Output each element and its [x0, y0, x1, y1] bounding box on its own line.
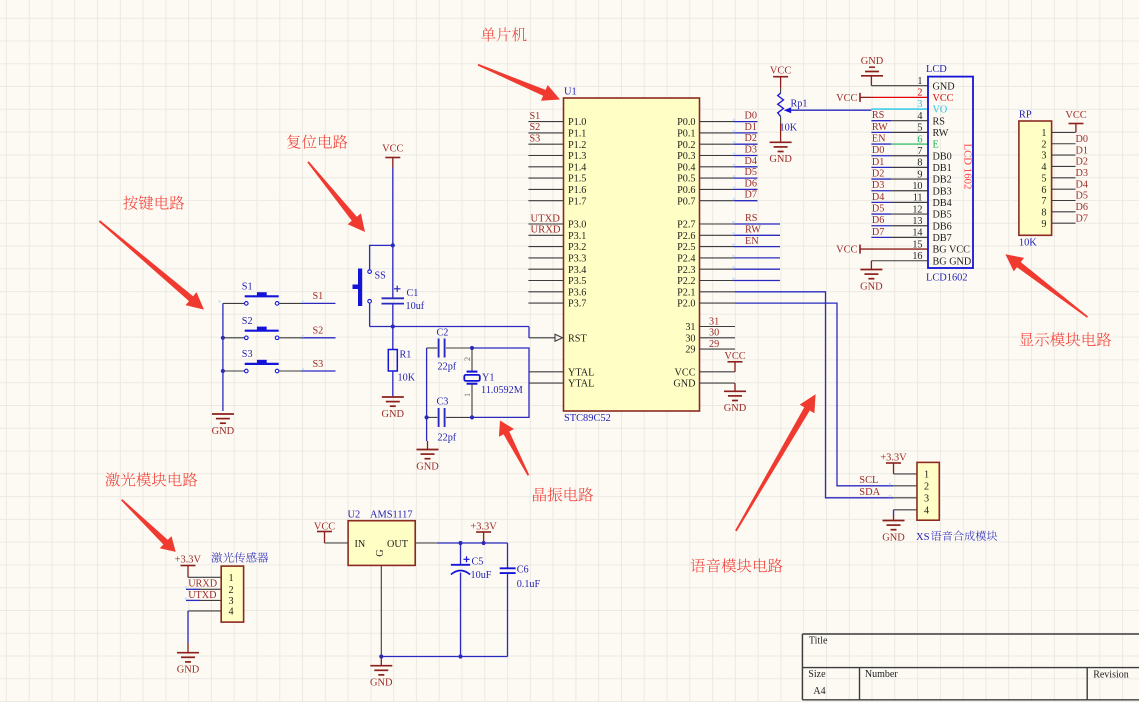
svg-text:P3.4: P3.4: [568, 265, 586, 276]
node crystal top junction: [470, 346, 474, 350]
svg-text:DB0: DB0: [933, 151, 952, 162]
wire LCD pin15 BG VCC: [860, 248, 928, 250]
svg-text:9: 9: [917, 169, 922, 180]
U1 left pins P1.0-P1.7: [528, 121, 563, 123]
svg-text:DB7: DB7: [933, 233, 952, 244]
svg-text:D3: D3: [872, 180, 884, 191]
wire laser pin1: [188, 576, 221, 578]
svg-text:4: 4: [924, 505, 929, 516]
LCD pins 4-14 wires with net labels: [871, 120, 891, 122]
svg-text:D0: D0: [872, 145, 884, 156]
svg-text:DB6: DB6: [933, 221, 952, 232]
node ground rail junction 1: [379, 654, 383, 658]
svg-text:30: 30: [709, 328, 719, 339]
svg-text:AMS1117: AMS1117: [370, 509, 413, 520]
svg-text:D7: D7: [872, 227, 884, 238]
svg-text:VCC: VCC: [836, 245, 857, 256]
svg-text:D6: D6: [1076, 202, 1088, 213]
laser pin numbers: [228, 573, 233, 618]
wire S2 output: [279, 337, 301, 339]
svg-text:1: 1: [917, 76, 922, 87]
svg-text:VCC: VCC: [1065, 110, 1086, 121]
wire VCC down: [392, 168, 394, 246]
svg-text:3: 3: [924, 493, 929, 504]
svg-text:P2.6: P2.6: [677, 231, 695, 242]
switch S1: [223, 302, 245, 304]
label 激光模块电路 (laser module circuit): [105, 472, 197, 486]
svg-text:+3.3V: +3.3V: [880, 453, 907, 464]
svg-text:GND: GND: [673, 379, 695, 390]
svg-text:D4: D4: [1076, 179, 1088, 190]
wire P2.1 to SDA: [700, 291, 736, 293]
U1 VCC pin wire: [700, 371, 736, 373]
wire XS pin1: [894, 473, 918, 475]
svg-text:D4: D4: [745, 156, 757, 167]
svg-text:P0.5: P0.5: [677, 174, 695, 185]
ground LCD bottom: [870, 261, 872, 270]
svg-text:3: 3: [228, 596, 233, 607]
svg-text:P1.7: P1.7: [568, 196, 586, 207]
svg-text:2: 2: [463, 357, 472, 361]
svg-text:D2: D2: [1076, 157, 1088, 168]
svg-text:22pf: 22pf: [438, 433, 457, 444]
ground buttons: [212, 413, 234, 415]
svg-text:Size: Size: [808, 669, 826, 680]
ground at U1: [734, 383, 736, 391]
wire laser pin3: [186, 599, 200, 601]
svg-text:2: 2: [917, 88, 922, 99]
svg-text:SDA: SDA: [859, 487, 880, 498]
svg-text:Revision: Revision: [1093, 670, 1129, 681]
node crystal bottom junction: [470, 415, 474, 419]
svg-text:BG GND: BG GND: [933, 256, 972, 267]
svg-text:8: 8: [1041, 207, 1046, 218]
svg-text:4: 4: [917, 111, 922, 122]
svg-text:LCD 1602: LCD 1602: [962, 144, 974, 190]
svg-text:GND: GND: [370, 678, 393, 689]
svg-text:P2.4: P2.4: [677, 254, 695, 265]
node S2 junction: [221, 336, 225, 340]
svg-text:5: 5: [917, 123, 922, 134]
svg-text:UTXD: UTXD: [188, 590, 216, 601]
resistor pack RP body: [1019, 121, 1052, 235]
node C5 junction top: [458, 541, 462, 545]
svg-text:D3: D3: [745, 145, 757, 156]
svg-text:P1.2: P1.2: [568, 140, 586, 151]
svg-text:D5: D5: [872, 203, 884, 214]
svg-text:S2: S2: [530, 122, 541, 133]
switch SS: [358, 269, 362, 307]
svg-text:15: 15: [912, 239, 922, 250]
svg-text:2: 2: [924, 481, 929, 492]
IC U1 STC89C52 body: [564, 98, 700, 411]
ground below R1: [382, 396, 404, 398]
svg-text:G: G: [375, 549, 386, 557]
svg-text:D0: D0: [745, 111, 757, 122]
node reset bottom junction: [391, 324, 395, 328]
title block frame: [802, 633, 1139, 635]
svg-text:10K: 10K: [780, 123, 798, 134]
svg-text:4: 4: [228, 607, 233, 618]
wire reset node: [370, 326, 529, 328]
svg-text:4: 4: [1041, 162, 1046, 173]
node +3.3V junction: [482, 541, 486, 545]
svg-text:EN: EN: [872, 133, 886, 144]
svg-text:8: 8: [917, 158, 922, 169]
svg-text:VCC: VCC: [836, 93, 857, 104]
wire XS pin4 to ground: [894, 509, 918, 511]
ground Rp1: [780, 124, 782, 143]
arrow to laser module: [121, 499, 176, 552]
svg-text:P2.1: P2.1: [677, 287, 695, 298]
svg-text:DB3: DB3: [933, 186, 952, 197]
wire S1 output: [279, 302, 301, 304]
svg-text:D4: D4: [872, 192, 884, 203]
svg-text:22pf: 22pf: [438, 362, 457, 373]
svg-text:GND: GND: [416, 461, 439, 472]
resistor R1: [392, 327, 394, 350]
ground crystal: [427, 441, 429, 450]
svg-text:STC89C52: STC89C52: [564, 413, 611, 424]
svg-text:D2: D2: [872, 168, 884, 179]
svg-text:S1: S1: [242, 282, 253, 293]
svg-text:D6: D6: [872, 215, 884, 226]
svg-text:SS: SS: [375, 271, 387, 282]
svg-text:IN: IN: [355, 539, 366, 550]
svg-text:GND: GND: [212, 426, 235, 437]
wire LCD pin2 VCC: [860, 96, 871, 98]
svg-text:VCC: VCC: [724, 351, 745, 362]
svg-text:P2.7: P2.7: [677, 220, 695, 231]
LCD pin names: [933, 81, 972, 267]
svg-text:D6: D6: [745, 178, 757, 189]
svg-text:Number: Number: [865, 669, 898, 680]
svg-text:RS: RS: [933, 116, 946, 127]
regulator U2 AMS1117 body: [348, 521, 415, 566]
node C2 C3 left junction: [425, 415, 429, 419]
svg-text:U2: U2: [348, 509, 361, 520]
svg-text:P3.5: P3.5: [568, 276, 586, 287]
LCD box: [928, 77, 973, 268]
svg-text:S1: S1: [530, 111, 541, 122]
svg-text:10: 10: [912, 181, 922, 192]
RP pin numbers: [1041, 128, 1046, 230]
U1 left pin names P1.x: [568, 117, 594, 390]
svg-text:+3.3V: +3.3V: [470, 521, 497, 532]
svg-text:D1: D1: [1076, 145, 1088, 156]
node ground rail junction 2: [458, 654, 462, 658]
svg-text:31: 31: [709, 316, 719, 327]
capacitor C1: [392, 245, 394, 298]
svg-text:EN: EN: [745, 236, 759, 247]
svg-text:RS: RS: [745, 213, 758, 224]
svg-text:URXD: URXD: [531, 225, 561, 236]
U1 GND pin wire: [700, 382, 736, 384]
svg-text:D2: D2: [745, 133, 757, 144]
svg-text:Y1: Y1: [482, 373, 494, 384]
arrow to reset circuit: [307, 161, 365, 232]
svg-text:10K: 10K: [398, 373, 416, 384]
svg-text:D1: D1: [872, 157, 884, 168]
capacitor C3: [427, 416, 438, 418]
node S3 junction: [221, 369, 225, 373]
label 显示模块电路 (display module circuit): [1019, 332, 1111, 346]
svg-text:VCC: VCC: [770, 66, 791, 77]
svg-text:12: 12: [912, 204, 922, 215]
svg-text:P0.3: P0.3: [677, 151, 695, 162]
svg-text:D5: D5: [1076, 191, 1088, 202]
label 复位电路 (reset circuit): [287, 135, 348, 149]
wire SS bottom: [369, 303, 371, 326]
svg-text:GND: GND: [724, 403, 747, 414]
svg-text:S3: S3: [530, 133, 541, 144]
svg-text:RW: RW: [745, 225, 761, 236]
U1 pins P2.7 P2.6 P2.5 with RS RW EN labels: [700, 223, 734, 225]
svg-text:10K: 10K: [1019, 238, 1037, 249]
svg-text:S2: S2: [313, 326, 324, 337]
svg-text:GND: GND: [933, 81, 955, 92]
U1 right pin names P0.x P2.x: [673, 117, 695, 390]
svg-text:E: E: [933, 140, 939, 151]
svg-text:D7: D7: [745, 190, 757, 201]
svg-text:RW: RW: [933, 128, 949, 139]
svg-text:P2.0: P2.0: [677, 299, 695, 310]
svg-text:VO: VO: [933, 105, 948, 116]
svg-text:1: 1: [1041, 128, 1046, 139]
svg-text:URXD: URXD: [188, 579, 217, 590]
svg-text:P0.7: P0.7: [677, 196, 695, 207]
svg-text:XS: XS: [916, 532, 930, 543]
svg-text:7: 7: [1041, 196, 1046, 207]
svg-text:P3.7: P3.7: [568, 299, 586, 310]
arrow to buttons: [99, 220, 204, 309]
svg-text:7: 7: [917, 146, 922, 157]
wire S3 output: [279, 370, 301, 372]
svg-text:+3.3V: +3.3V: [175, 554, 202, 565]
svg-text:3: 3: [1041, 151, 1046, 162]
svg-text:LCD1602: LCD1602: [926, 273, 968, 284]
svg-text:S2: S2: [242, 316, 253, 327]
wire XS pin2 SCL: [893, 485, 917, 487]
wire to switch SS: [370, 245, 393, 269]
svg-text:1: 1: [463, 393, 472, 397]
svg-text:P1.0: P1.0: [568, 117, 586, 128]
svg-text:GND: GND: [882, 532, 905, 543]
wire G pin down: [380, 565, 382, 656]
wire U2 ground rail: [381, 656, 507, 658]
svg-text:2: 2: [228, 585, 233, 596]
svg-text:Title: Title: [809, 636, 828, 647]
svg-text:RW: RW: [872, 122, 888, 133]
wire LCD pin16 BG GND: [871, 260, 928, 262]
svg-text:DB4: DB4: [933, 198, 952, 209]
svg-text:RS: RS: [872, 110, 885, 121]
capacitor C5: [460, 543, 462, 565]
svg-text:P0.1: P0.1: [677, 129, 695, 140]
wire to RST pin: [528, 327, 530, 339]
wire laser pin4 to ground: [188, 610, 221, 612]
switch S2: [223, 337, 245, 339]
RST open arrow: [555, 334, 563, 341]
label 按键电路 (button circuit): [123, 195, 184, 209]
svg-text:R1: R1: [400, 350, 412, 361]
resistor Rp1 zigzag: [780, 88, 782, 93]
svg-text:GND: GND: [177, 665, 200, 676]
svg-text:P2.5: P2.5: [677, 242, 695, 253]
svg-text:3: 3: [917, 99, 922, 110]
wire P2.0 to SCL: [700, 302, 736, 304]
svg-text:29: 29: [709, 339, 719, 350]
svg-text:C5: C5: [472, 556, 484, 567]
svg-text:P3.1: P3.1: [568, 231, 586, 242]
capacitor C6: [507, 543, 509, 568]
svg-text:13: 13: [912, 216, 922, 227]
svg-text:11.0592M: 11.0592M: [481, 385, 523, 396]
wire crystal left trunk: [426, 348, 428, 441]
svg-text:DB2: DB2: [933, 175, 952, 186]
svg-text:U1: U1: [564, 87, 577, 98]
svg-text:GND: GND: [860, 281, 883, 292]
svg-text:DB1: DB1: [933, 163, 952, 174]
svg-text:16: 16: [912, 251, 922, 262]
wire VCC to IN: [325, 542, 349, 544]
svg-text:UTXD: UTXD: [531, 213, 561, 224]
svg-text:P1.1: P1.1: [568, 129, 586, 140]
svg-text:P3.3: P3.3: [568, 254, 586, 265]
svg-text:YTAL: YTAL: [568, 379, 594, 390]
XS pin numbers: [924, 470, 929, 517]
power port VCC at U1: [728, 361, 743, 363]
svg-text:P0.0: P0.0: [677, 117, 695, 128]
label 激光传感器 laser sensor: [212, 552, 269, 563]
svg-text:P1.5: P1.5: [568, 174, 586, 185]
svg-text:VCC: VCC: [382, 144, 403, 155]
wire LCD pin1 GND: [871, 85, 928, 87]
arrow to U1: [478, 64, 560, 101]
svg-text:1: 1: [228, 573, 233, 584]
svg-text:RST: RST: [568, 333, 587, 344]
svg-text:P0.6: P0.6: [677, 185, 695, 196]
svg-text:VCC: VCC: [675, 367, 696, 378]
switch S3: [223, 370, 245, 372]
svg-text:1: 1: [924, 470, 929, 481]
ground U2: [380, 657, 382, 666]
Rp1 wiper arrow: [784, 107, 791, 113]
svg-text:31: 31: [685, 322, 695, 333]
svg-text:Rp1: Rp1: [791, 99, 808, 110]
svg-text:14: 14: [912, 228, 922, 239]
svg-text:S3: S3: [242, 349, 253, 360]
svg-text:P0.4: P0.4: [677, 162, 695, 173]
svg-text:D0: D0: [1076, 134, 1088, 145]
svg-text:P2.3: P2.3: [677, 265, 695, 276]
U1 pins P2.4 P2.3 P2.2 stub wires: [700, 257, 734, 259]
svg-text:P1.6: P1.6: [568, 185, 586, 196]
svg-text:VCC: VCC: [933, 93, 954, 104]
label 晶振电路 (crystal circuit): [533, 487, 593, 501]
label 语音模块电路 (voice module circuit): [691, 558, 783, 572]
svg-text:D5: D5: [745, 167, 757, 178]
svg-text:6: 6: [1041, 185, 1046, 196]
svg-text:11: 11: [913, 193, 923, 204]
svg-text:30: 30: [685, 333, 695, 344]
svg-text:LCD: LCD: [926, 64, 947, 75]
svg-text:P3.2: P3.2: [568, 242, 586, 253]
svg-text:P3.0: P3.0: [568, 220, 586, 231]
YTAL pin wires: [529, 371, 564, 373]
svg-text:GND: GND: [769, 154, 792, 165]
svg-text:D7: D7: [1076, 213, 1088, 224]
connector XS body: [917, 462, 939, 520]
arrow to voice module: [735, 394, 816, 531]
svg-text:9: 9: [1041, 219, 1046, 230]
svg-text:D3: D3: [1076, 168, 1088, 179]
svg-text:DB5: DB5: [933, 210, 952, 221]
wire laser pin2: [186, 588, 200, 590]
svg-text:BG VCC: BG VCC: [933, 245, 971, 256]
svg-text:P0.2: P0.2: [677, 140, 695, 151]
svg-text:D1: D1: [745, 122, 757, 133]
svg-text:10uf: 10uf: [406, 301, 425, 312]
svg-text:SCL: SCL: [859, 475, 878, 486]
U1 right pins P0.0-P0.7 with D0-D7 net labels: [700, 121, 735, 123]
LCD pin numbers: [912, 76, 922, 262]
svg-text:P1.4: P1.4: [568, 162, 586, 173]
svg-text:29: 29: [685, 345, 695, 356]
svg-text:C1: C1: [407, 288, 419, 299]
ground XS: [883, 520, 905, 522]
wire XS pin3 SDA: [893, 497, 917, 499]
svg-text:RP: RP: [1019, 110, 1032, 121]
svg-text:C2: C2: [437, 328, 449, 339]
svg-text:GND: GND: [382, 409, 405, 420]
svg-text:YTAL: YTAL: [568, 367, 594, 378]
svg-text:S1: S1: [313, 291, 324, 302]
ground laser: [177, 652, 199, 654]
wire crystal to YTAL pins: [472, 348, 529, 417]
svg-text:C3: C3: [437, 397, 449, 408]
wire button trunk: [222, 303, 224, 411]
U1 left pins P3.0-P3.7: [528, 223, 563, 225]
svg-text:A4: A4: [813, 686, 825, 697]
svg-text:S3: S3: [313, 359, 324, 370]
svg-text:2: 2: [1041, 139, 1046, 150]
wire LCD pin3 VO: [871, 108, 928, 110]
connector laser body: [221, 566, 243, 622]
svg-text:C6: C6: [517, 565, 529, 576]
node reset top junction: [391, 243, 395, 247]
power port VCC LCD pin15: [859, 245, 861, 254]
svg-text:10uF: 10uF: [471, 570, 492, 581]
crystal Y1: [471, 348, 473, 372]
svg-text:GND: GND: [861, 56, 884, 67]
svg-text:6: 6: [917, 134, 922, 145]
svg-text:P1.3: P1.3: [568, 151, 586, 162]
U1 pins 31 30 29: [700, 326, 736, 328]
label 单片机 (microcontroller): [481, 27, 526, 41]
wire OUT node: [415, 542, 437, 544]
svg-text:P3.6: P3.6: [568, 287, 586, 298]
svg-text:5: 5: [1041, 173, 1046, 184]
svg-text:OUT: OUT: [387, 539, 409, 550]
svg-text:VCC: VCC: [314, 521, 335, 532]
arrow to display module: [1005, 254, 1088, 317]
arrow to crystal: [499, 421, 529, 476]
RP pin wires: [1052, 131, 1076, 133]
svg-text:0.1uF: 0.1uF: [517, 579, 541, 590]
svg-text:P2.2: P2.2: [677, 276, 695, 287]
capacitor C2: [427, 347, 438, 349]
